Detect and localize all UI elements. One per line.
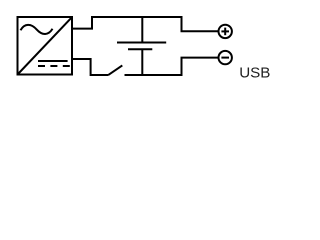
wire: supply positive output to + terminal (top rail): [72, 17, 219, 31]
DC solid line: [38, 60, 68, 62]
wire: supply negative output to switch: [72, 59, 109, 75]
battery top lead: [141, 17, 143, 42]
DC dashed line: [38, 65, 70, 67]
battery bottom lead: [141, 50, 143, 75]
terminal + (USB positive): [219, 25, 232, 38]
wire: switch contact to - terminal (bottom rail): [125, 58, 219, 75]
battery positive plate: [117, 42, 166, 44]
terminal - (USB negative): [219, 51, 232, 64]
switch S1 blade (open): [108, 65, 122, 75]
AC sine symbol: [21, 25, 53, 34]
svg-text:USB: USB: [239, 65, 270, 82]
AC/DC divider diagonal: [18, 17, 72, 74]
battery BT1: [117, 17, 166, 75]
AC/DC power supply PS1 box: [18, 17, 73, 75]
battery negative plate: [128, 48, 152, 50]
